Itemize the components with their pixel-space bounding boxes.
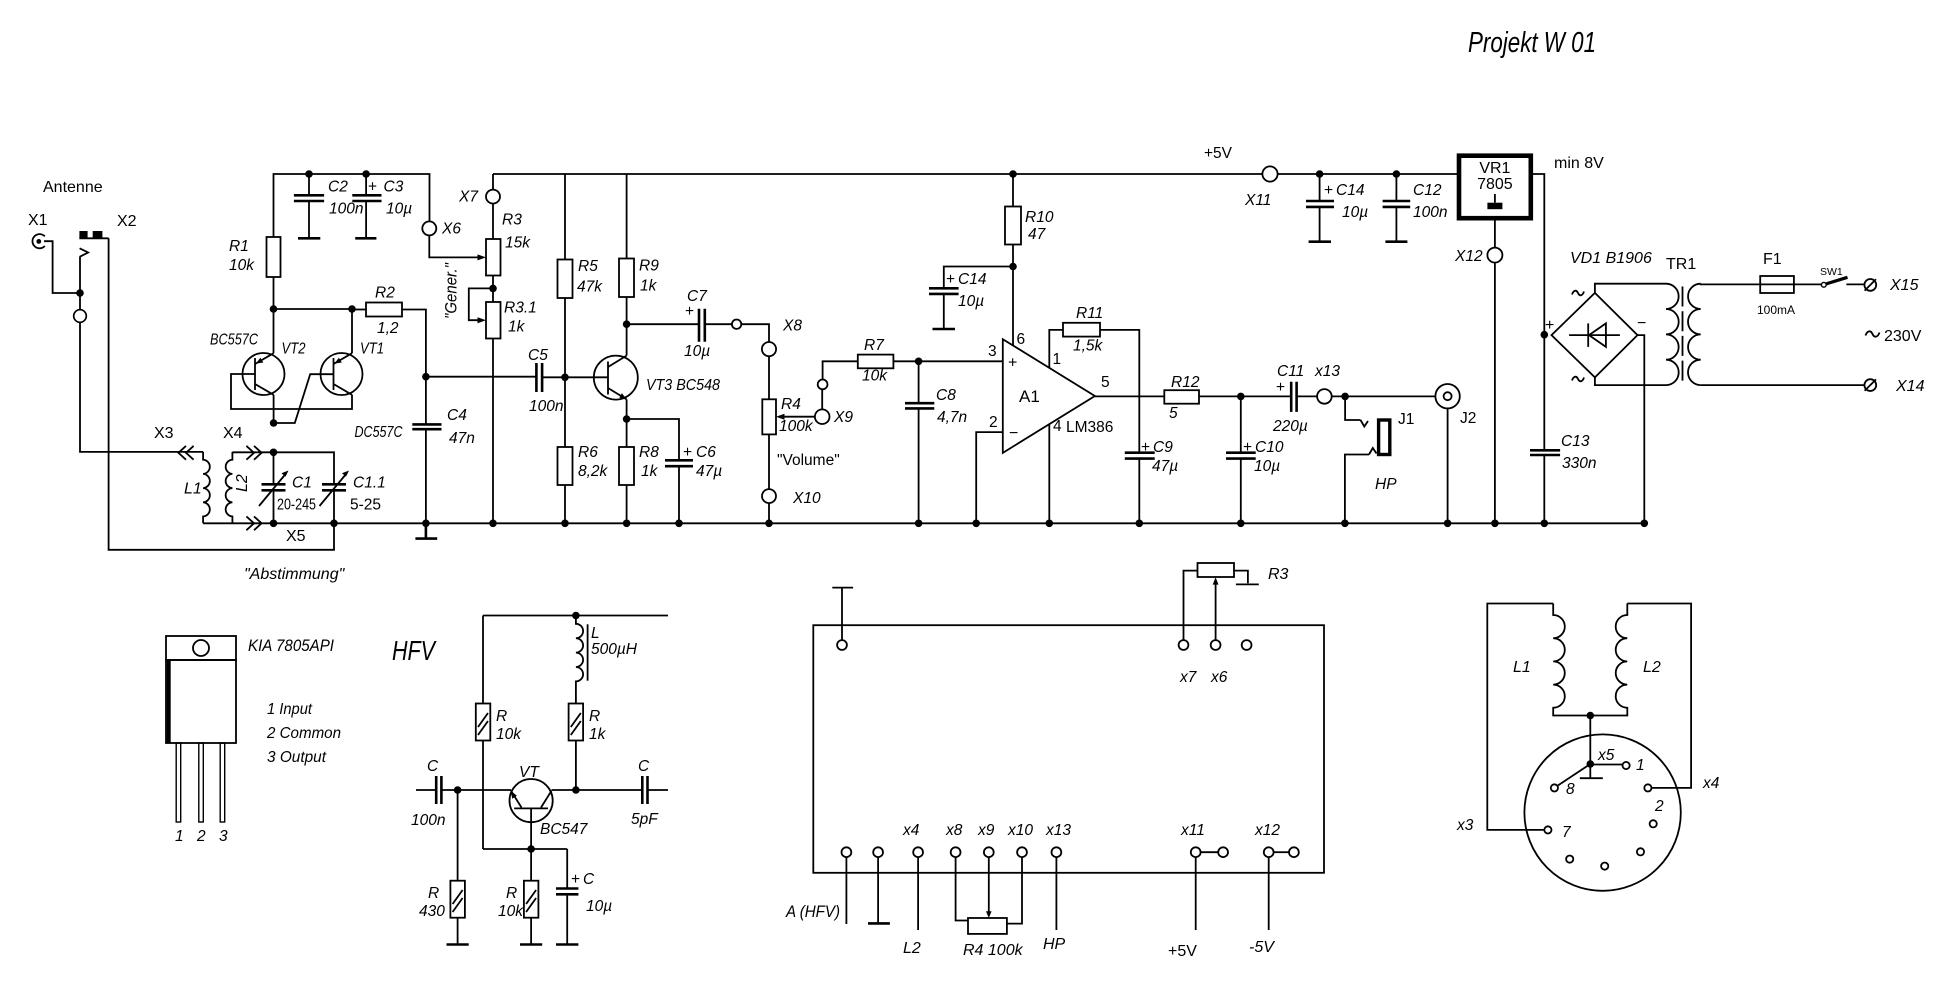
capacitor C6 [627,419,723,523]
wire pin1 to R11 [1049,330,1063,368]
svg-text:5: 5 [1169,405,1178,422]
squiggle J1 upper contact [1361,420,1369,427]
connector X7 [458,174,500,239]
resistor R11 [1063,305,1139,453]
headphone plug J1 [1379,411,1415,455]
svg-text:7: 7 [1562,824,1572,841]
ground bar below x5 [1580,764,1603,778]
svg-text:x11: x11 [1180,822,1205,839]
svg-text:DC557C: DC557C [355,424,404,441]
wire VR1 common to X12 [1494,218,1496,523]
capacitor C4 [412,377,475,524]
svg-text:10k: 10k [862,368,888,385]
svg-text:4,7n: 4,7n [937,409,967,426]
capacitor C 10u (HFV) [556,849,612,945]
svg-text:2 Common: 2 Common [266,725,341,742]
wire HFV top rail [483,615,668,617]
svg-text:C: C [583,871,595,888]
svg-text:R: R [428,885,439,902]
wire antenna lead down to X3 line [80,257,203,452]
transistor VT2 BC557C [243,353,285,395]
svg-text:1k: 1k [589,726,607,743]
svg-text:min 8V: min 8V [1554,155,1604,172]
junction R10 top rail [1009,170,1017,178]
transistor VT BC547 (HFV) [509,764,588,849]
svg-text:C8: C8 [936,387,956,404]
package leg 1 [176,743,181,822]
svg-text:F1: F1 [1763,251,1782,268]
svg-text:47µ: 47µ [1152,458,1178,475]
svg-text:1: 1 [1636,757,1645,774]
DIN pin 8 [1551,781,1575,798]
terminal X14 [1864,378,1924,395]
svg-text:L2: L2 [903,940,921,957]
wire VT2 collector down [273,395,275,423]
svg-text:R3: R3 [502,212,522,229]
resistor R 10k upper (HFV) [476,616,522,850]
svg-text:X12: X12 [1454,248,1483,265]
board pin x4 [902,822,923,957]
svg-text:10µ: 10µ [386,201,412,218]
resistor R12 [1164,374,1241,422]
wire VT2 base loop [231,374,352,409]
connector X3 chevrons [178,446,193,460]
capacitor C 100n (HFV input) [411,758,458,829]
capacitor C12 [1383,174,1448,242]
potentiometer R3.1 [486,300,537,339]
svg-text:x12: x12 [1254,822,1280,839]
svg-text:x6: x6 [1210,669,1228,686]
DIN plug inductor L1 [1487,604,1590,830]
svg-text:3: 3 [988,343,997,360]
wire top rail B [493,173,1459,175]
svg-text:R8: R8 [639,444,659,461]
svg-text:C: C [638,758,650,775]
resistor R8 [619,419,659,523]
capacitor C10 [1226,396,1284,523]
svg-text:L1: L1 [1513,659,1531,676]
svg-text:HP: HP [1043,936,1066,953]
junction C14b top [1316,170,1324,178]
svg-text:R6: R6 [578,444,598,461]
jack J2 [1435,384,1476,523]
svg-text:C12: C12 [1413,182,1442,199]
svg-text:2: 2 [196,828,206,845]
svg-text:+: + [1276,379,1285,396]
svg-text:X15: X15 [1889,277,1919,294]
junction VT1 emitter / R2 [348,305,356,313]
svg-text:C11: C11 [1277,363,1304,380]
wire pin4 to ground [1048,424,1050,523]
board pin x8 [945,822,968,921]
svg-text:R3.1: R3.1 [504,300,537,317]
junction VT3 emitter [623,415,631,423]
svg-text:R5: R5 [578,258,598,275]
svg-text:X1: X1 [28,212,48,229]
svg-text:x7: x7 [1179,669,1198,686]
DIN connector circle [1524,734,1680,890]
svg-text:47µ: 47µ [696,463,722,480]
svg-text:1k: 1k [641,463,659,480]
svg-text:10µ: 10µ [1254,458,1280,475]
junction C5 right / R5 R6 [561,374,569,382]
svg-text:2: 2 [989,414,998,431]
resistor R7 [858,337,1003,385]
junction top of C1 [270,449,278,457]
svg-text:R2: R2 [375,285,395,302]
capacitor C11 [1241,363,1317,435]
svg-text:R4 100k: R4 100k [963,942,1024,959]
wire junction to VT2 emitter [273,309,275,353]
junction C4 top [422,373,430,381]
svg-text:20-245: 20-245 [277,497,316,514]
board pin x10 [1007,822,1033,924]
svg-text:L2: L2 [234,474,251,492]
capacitor C14a [929,267,1013,330]
svg-text:3: 3 [219,828,228,845]
wire secondary top to fuse [1701,283,1761,286]
wire X4 line to C1.1 [232,452,334,484]
svg-text:J1: J1 [1398,411,1414,428]
svg-text:+: + [1243,439,1252,456]
svg-text:x5: x5 [1597,747,1615,764]
junction R12 / C10 [1237,393,1245,401]
wire J1 lower lead [1345,455,1369,524]
svg-text:2: 2 [1654,798,1664,815]
svg-text:1: 1 [1053,351,1062,368]
squiggle J1 lower contact [1369,448,1377,455]
svg-text:R: R [506,885,517,902]
svg-text:5pF: 5pF [631,811,659,828]
svg-text:C: C [427,758,439,775]
connector X6 [422,221,461,238]
svg-text:X5: X5 [286,528,306,545]
svg-text:R3: R3 [1268,566,1289,583]
svg-text:47: 47 [1028,226,1047,243]
svg-text:100n: 100n [1413,204,1447,221]
DIN unlabeled pins [1566,820,1657,870]
svg-text:Projekt W 01: Projekt W 01 [1468,27,1596,59]
svg-text:C2: C2 [328,179,348,196]
DIN pin 7 [1544,824,1572,841]
junction C3 top [362,170,370,178]
svg-text:+: + [1324,182,1333,199]
wire R3.1 bottom to ground rail [492,339,494,524]
svg-text:HFV: HFV [392,635,437,666]
junction C2 top [305,170,313,178]
wire J1 upper lead [1345,396,1360,420]
capacitor C8 [905,361,967,523]
junction VT2 collector [270,419,278,427]
transformer TR1 secondary [1688,284,1701,385]
fuse F1 [1757,251,1795,317]
svg-text:+: + [368,179,377,196]
op-amp A1 LM386 [1003,339,1095,453]
resistor R1 [229,237,281,309]
svg-text:+: + [946,271,955,288]
capacitor C9 [1125,439,1178,523]
capacitor C3 [352,174,412,238]
node x5 [1587,747,1615,768]
potentiometer R4 (board) [963,918,1024,959]
connector X5 chevrons [246,516,261,530]
resistor R6 [558,377,609,523]
svg-text:+: + [1141,439,1150,456]
svg-text:500µH: 500µH [591,641,638,658]
svg-text:X7: X7 [458,189,479,206]
svg-text:x3: x3 [1456,817,1474,834]
capacitor C 5pF (HFV output) [631,758,668,828]
svg-text:L2: L2 [1643,659,1661,676]
wire R3 to R3.1 [492,276,494,303]
resistor R2 [352,285,426,377]
connector X11 [1244,166,1278,209]
svg-text:+: + [1008,355,1017,372]
svg-text:C1.1: C1.1 [353,475,386,492]
resistor R 10k lower (HFV) [498,849,538,945]
svg-text:R12: R12 [1171,374,1200,391]
svg-text:Antenne: Antenne [43,179,103,196]
svg-text:C13: C13 [1561,433,1590,450]
inductor L 500uH [576,616,638,704]
svg-text:BC557C: BC557C [210,332,259,349]
svg-text:x13: x13 [1314,363,1340,380]
inductor L2 [226,452,251,523]
svg-text:X10: X10 [792,490,821,507]
svg-text:C4: C4 [447,407,467,424]
svg-text:C14: C14 [1336,182,1365,199]
svg-text:R1: R1 [229,238,249,255]
svg-text:10µ: 10µ [586,898,612,915]
variable capacitor C1 [259,452,316,523]
junction VT3 collector / C7 [623,320,631,328]
svg-text:x13: x13 [1045,822,1071,839]
plug break chevron on antenna lead [80,248,89,256]
svg-text:4: 4 [1053,418,1062,435]
svg-text:5-25: 5-25 [350,497,381,514]
svg-text:1 Input: 1 Input [267,701,313,718]
svg-text:3 Output: 3 Output [267,749,327,766]
junction HFV L top [572,612,580,620]
junction R3.1 top [489,285,497,293]
svg-text:+: + [1545,317,1554,334]
svg-text:X3: X3 [154,425,174,442]
svg-text:X14: X14 [1895,378,1925,395]
svg-text:R: R [496,708,507,725]
wire x13 to J2 [1332,395,1436,397]
wire x5 to pin 1 [1590,764,1622,766]
svg-text:BC547: BC547 [540,821,589,838]
svg-text:+: + [571,871,580,888]
svg-text:R11: R11 [1076,305,1103,322]
ground symbol R430 [447,943,469,946]
svg-text:-5V: -5V [1249,939,1275,956]
svg-text:7805: 7805 [1477,176,1513,193]
wire VT3 base line [426,376,608,379]
svg-text:X6: X6 [441,221,461,238]
capacitor C2 [294,174,364,238]
svg-text:C14: C14 [958,271,987,288]
svg-text:C10: C10 [1255,439,1284,456]
connector X12 [1454,248,1502,265]
svg-text:"Abstimmung": "Abstimmung" [244,566,346,583]
connector X1 socket symbol [32,234,44,248]
IC package KIA 7805API drawing [166,636,236,743]
svg-text:L: L [591,625,600,642]
svg-text:J2: J2 [1460,410,1476,427]
svg-text:X9: X9 [833,409,853,426]
svg-text:R9: R9 [639,258,659,275]
svg-text:LM386: LM386 [1066,419,1113,436]
svg-text:X4: X4 [223,425,243,442]
svg-text:100k: 100k [779,418,814,435]
wire VT base node [483,848,567,850]
svg-text:430: 430 [419,903,445,920]
wire x5 to pin 8 [1558,764,1591,786]
wire junction to x5 [1589,716,1591,765]
transistor VT3 BC548 [594,356,721,400]
svg-text:C1: C1 [292,475,312,492]
package leg 3 [220,743,225,822]
board pin ground [868,847,890,923]
wire bottom ground rail [203,522,1644,524]
svg-text:R7: R7 [864,337,885,354]
svg-text:R10: R10 [1025,209,1054,226]
svg-text:VT: VT [519,764,540,781]
board pins x11 [1168,822,1228,960]
switch SW1 [1820,266,1848,287]
svg-text:x10: x10 [1007,822,1033,839]
wire X2 down and Abstimmung loop [109,238,334,550]
svg-text:TR1: TR1 [1666,256,1696,273]
potentiometer R3 wiper arrow [478,254,487,260]
label 230V [1866,328,1922,345]
svg-text:VT1: VT1 [360,341,384,358]
svg-text:x8: x8 [945,822,963,839]
DIN pin 1 [1623,757,1645,774]
svg-text:100mA: 100mA [1757,303,1795,317]
terminal X15 [1864,277,1918,294]
capacitor C14b [1306,174,1368,242]
svg-text:VT3 BC548: VT3 BC548 [646,377,720,394]
svg-text:X8: X8 [782,318,802,335]
svg-text:8,2k: 8,2k [578,463,609,480]
board pin A HFV [785,847,851,924]
junction bridge plus [1541,331,1549,339]
wire C7 to X8 [741,324,769,342]
bridge rectifier VD1 [1545,291,1646,382]
wire switch to X15 [1846,283,1864,285]
connector X2 plug squares [79,231,108,238]
transformer TR1 primary [1666,284,1679,385]
potentiometer R4 Volume [762,396,839,469]
DIN pin 2 [1644,784,1664,815]
wire fuse to switch [1794,283,1822,285]
connector X8 [762,318,802,357]
wire cross-coupling to VT1 base [274,374,334,423]
svg-text:−: − [1637,315,1646,332]
svg-text:8: 8 [1566,781,1575,798]
svg-text:X2: X2 [117,213,137,230]
capacitor C7 [627,288,732,360]
svg-text:+5V: +5V [1168,943,1197,960]
ground symbol R10k [520,943,542,946]
svg-text:1k: 1k [508,319,526,336]
svg-text:+5V: +5V [1204,145,1233,162]
PCB board outline [813,625,1324,873]
package leg 2 [199,743,204,822]
connector X9 and wiper arrow [776,409,853,426]
svg-text:10µ: 10µ [958,293,984,310]
variable capacitor C1.1 [320,471,386,524]
svg-text:100n: 100n [411,812,445,829]
resistor R 430 (HFV) [419,790,465,945]
connector circle before X8 [732,320,741,329]
junction L1 L2 [1587,712,1595,720]
svg-text:C6: C6 [696,444,716,461]
wire bridge bottom to transformer [1595,377,1666,385]
ground symbol at C4 column [415,523,437,538]
svg-text:5: 5 [1101,374,1110,391]
svg-text:C9: C9 [1153,439,1173,456]
board pin unused top [1242,640,1252,650]
junction R10 bottom / C14a [1009,263,1017,271]
board pin x9 [977,822,995,918]
capacitor C5 [528,347,563,415]
ground symbol C10u [556,943,578,946]
wire pin2 to ground rail [976,432,1003,523]
svg-text:L1: L1 [184,481,202,498]
DIN plug inductor L2 [1590,604,1691,788]
potentiometer R3 [486,212,531,276]
board pin x6 [1211,640,1221,650]
leg number labels [175,828,228,845]
junction R1 bottom [270,305,278,313]
voltage regulator VR1 7805 [1459,156,1531,219]
wire bridge top to transformer [1595,284,1666,293]
svg-text:1: 1 [175,828,184,845]
junction R7 / C8 [915,358,923,366]
wire VR1 output to bridge [1531,174,1545,335]
svg-text:VD1 B1906: VD1 B1906 [1570,250,1652,267]
antenna pin with T symbol [832,588,853,650]
svg-text:47n: 47n [449,430,475,447]
svg-text:HP: HP [1375,476,1397,493]
wire X1 to junction [44,241,80,293]
resistor R9 [619,174,659,356]
resistor R10 [1005,174,1054,346]
transistor VT1 [321,309,363,395]
svg-text:"Gener.": "Gener." [442,262,461,319]
svg-text:10k: 10k [496,726,522,743]
potentiometer R3.1 wiper loop [469,288,493,320]
svg-text:x9: x9 [977,822,995,839]
resistor R 1k (HFV) [569,704,607,791]
svg-text:47k: 47k [577,279,603,296]
svg-text:330n: 330n [1562,455,1596,472]
svg-text:+: + [683,444,692,461]
svg-text:A (HFV): A (HFV) [785,902,840,921]
wire secondary bottom to X14 [1701,384,1865,386]
svg-text:100n: 100n [329,201,363,218]
junction C100n / R430 [454,786,462,794]
svg-text:6: 6 [1017,331,1026,348]
board pin x13 [1043,822,1071,953]
wire X6 to R3 wiper [429,235,478,257]
wire output pin5 [1095,395,1164,397]
wire R1 junction to R2 junction [274,308,353,310]
board pins x12 [1249,822,1299,956]
